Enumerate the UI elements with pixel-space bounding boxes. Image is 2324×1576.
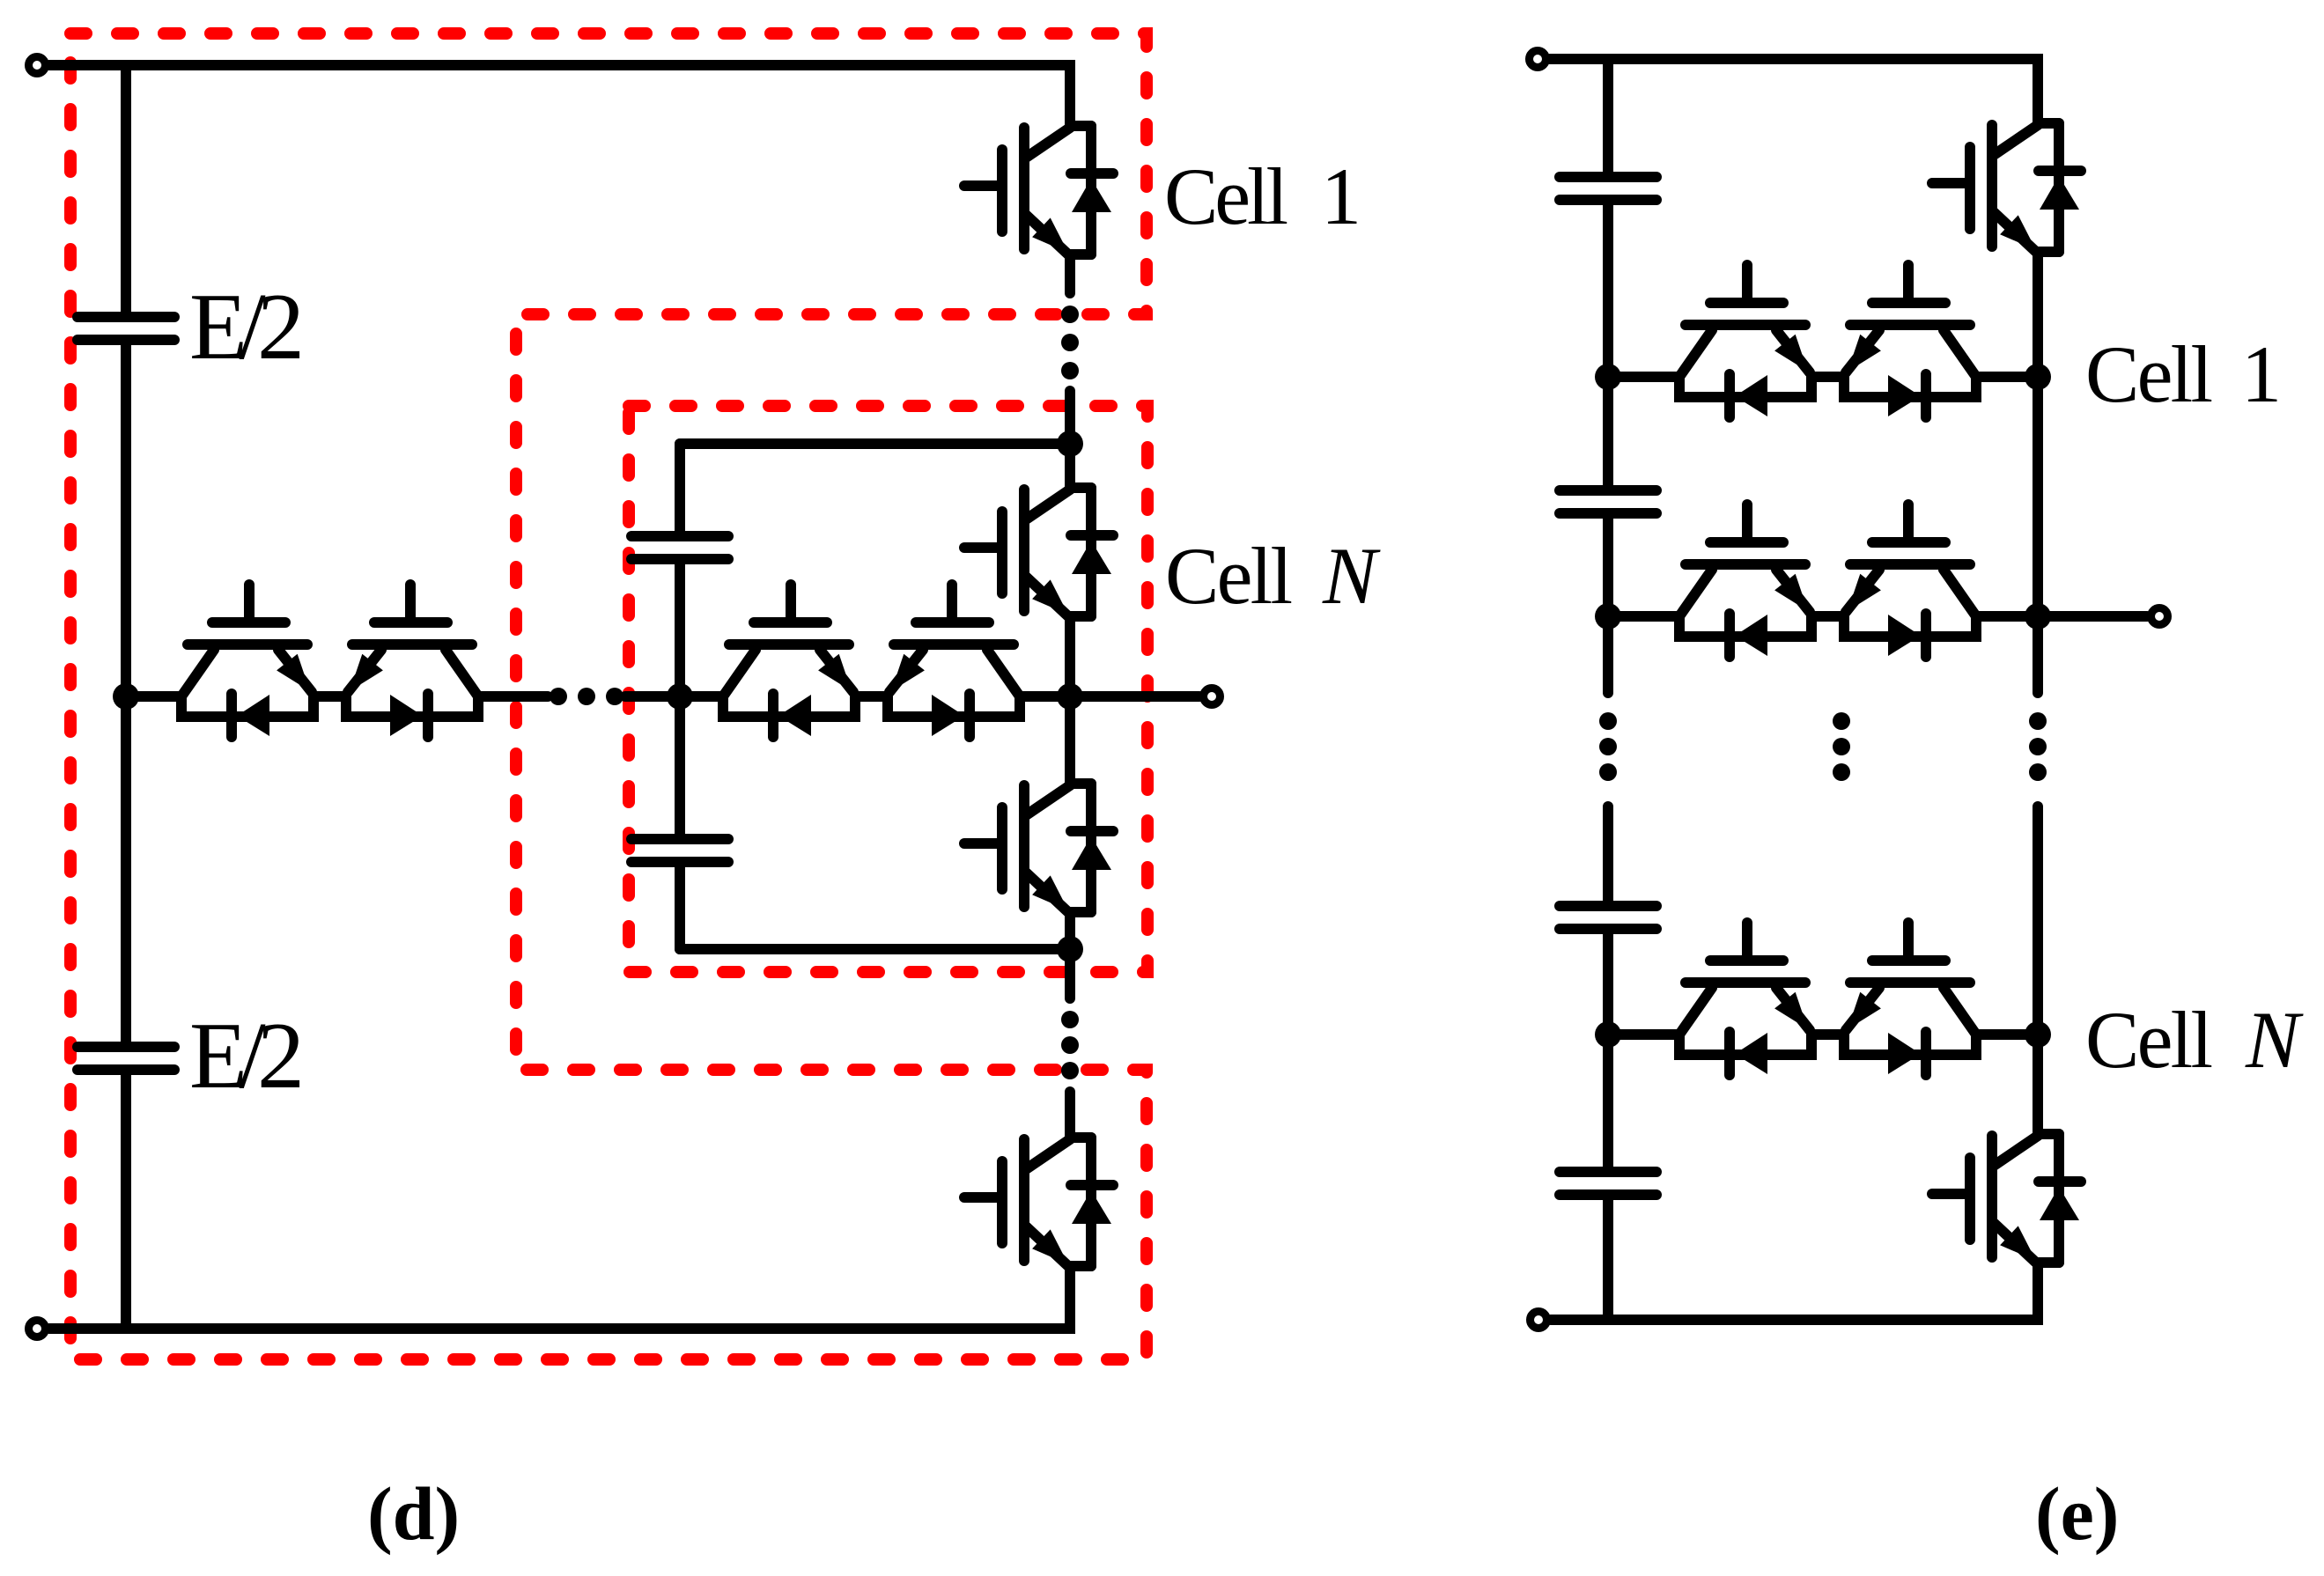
capacitor C1 E/2: [77, 317, 174, 340]
svg-text:Cell: Cell: [2085, 329, 2213, 419]
wire chain below dots to IGBT4: [1065, 1092, 1075, 1138]
wire flying-cap left branch middle: [675, 559, 685, 839]
terminal AC output (d): [1204, 689, 1221, 705]
svg-text:1: 1: [1321, 151, 1361, 241]
node dot row2 left: [1595, 603, 1621, 630]
capacitor C3 flying: [631, 536, 728, 559]
wire top rail (d): [49, 65, 1070, 126]
wire chain IGBT3 to lower dots: [1065, 912, 1075, 998]
wire chain IGBT1 to dots: [1065, 254, 1075, 293]
wire row2 rail right: [1976, 611, 2038, 622]
node dot row1 right: [2025, 364, 2051, 390]
transistor Q4 bottom IGBT of cell 1: [964, 1138, 1113, 1266]
wire bottom rail (e): [1551, 1263, 2038, 1320]
svg-text:1: 1: [2241, 329, 2282, 419]
wire left branch (e) segment 5: [1603, 929, 1613, 1172]
wire row1 rail right: [1976, 372, 2038, 382]
wire mid rail left segment: [126, 691, 181, 702]
wire row3 rail right: [1976, 1029, 2038, 1040]
capacitor C4 flying: [631, 839, 728, 862]
terminal AC output (e): [2151, 608, 2168, 625]
wire flying-cap top link: [680, 438, 1070, 449]
node dot flying-cap rail junction: [667, 683, 693, 710]
svg-text:E/2: E/2: [189, 1004, 305, 1108]
node dot row2 right: [2025, 603, 2051, 630]
capacitor C5 (e): [1560, 177, 1656, 200]
dotted continuation left column (e): [1599, 712, 1617, 781]
wire left branch (e) segment 2: [1603, 200, 1613, 490]
dotted continuation right column (e): [2029, 712, 2047, 781]
wire chain dots to node A: [1065, 391, 1075, 488]
wire row2 rail left: [1608, 611, 1679, 622]
dotted continuation middle column (e): [1833, 712, 1850, 781]
transistor pair row1 bidirectional switch (e): [1679, 265, 1976, 417]
terminal DC+ (d): [29, 57, 46, 74]
wire flying-cap left branch lower: [675, 862, 685, 949]
svg-text:Cell: Cell: [1164, 151, 1288, 241]
wire top rail (e): [1550, 59, 2038, 123]
wire chain row1 to row2: [2033, 377, 2043, 693]
wire chain top IGBT to row1: [2033, 252, 2043, 377]
capacitor C8 (e): [1560, 1172, 1656, 1195]
node dot row1 left: [1595, 364, 1621, 390]
red dashed boundary Cell N (inner box): [629, 406, 1147, 972]
wire left branch (e) segment 4: [1603, 806, 1613, 906]
dotted continuation mid rail: [550, 688, 623, 705]
svg-text:Cell: Cell: [1165, 531, 1293, 621]
wire row3 rail left: [1608, 1029, 1679, 1040]
terminal DC+ (e): [1530, 51, 1546, 68]
node dot chain bottom of cell N: [1057, 936, 1083, 962]
transistor pair row3 bidirectional switch (e): [1679, 923, 1976, 1075]
wire row2 output to terminal: [2038, 611, 2147, 622]
terminal DC- (d): [29, 1321, 46, 1337]
wire bottom rail (d): [49, 1266, 1070, 1329]
wire left DC-link branch (d): [121, 65, 131, 317]
node dot row3 left: [1595, 1021, 1621, 1048]
wire chain IGBT2 to IGBT3: [1065, 616, 1075, 784]
wire flying-cap bottom link: [680, 944, 1070, 954]
svg-text:(e): (e): [2035, 1471, 2119, 1556]
wire row1 rail left: [1608, 372, 1679, 382]
wire chain dots to row3: [2033, 806, 2043, 1134]
node dot left rail junction: [113, 683, 139, 710]
dotted continuation chain lower: [1061, 1011, 1079, 1079]
capacitor C2 E/2: [77, 1047, 174, 1070]
svg-text:(d): (d): [367, 1471, 460, 1556]
transistor pair row2 bidirectional switch (e): [1679, 504, 1976, 657]
node dot chain mid rail: [1057, 683, 1083, 710]
transistor Q6 bottom IGBT (e): [1932, 1134, 2081, 1263]
wire mid rail after pair 1: [478, 691, 548, 702]
svg-text:E/2: E/2: [189, 275, 305, 379]
transistor Q2 upper IGBT of cell N: [964, 488, 1113, 616]
wire flying-cap left branch upper: [675, 444, 685, 536]
node dot chain top of cell N: [1057, 431, 1083, 457]
wire left branch (e) segment 1: [1603, 59, 1613, 177]
transistor pair S1/S2 bidirectional switch: [181, 585, 478, 737]
dotted continuation chain upper: [1061, 306, 1079, 379]
svg-text:Cell: Cell: [2085, 995, 2213, 1085]
wire left branch (e) segment 3: [1603, 513, 1613, 693]
red dashed boundary Cell 1 (outer C-shaped box): [70, 33, 1147, 1359]
svg-text:N: N: [1322, 531, 1381, 621]
terminal DC- (e): [1531, 1312, 1547, 1329]
wire left branch (e) segment 6: [1603, 1195, 1613, 1320]
transistor pair S3/S4 bidirectional switch of cell N: [723, 585, 1020, 737]
transistor Q5 top IGBT (e): [1932, 123, 2081, 252]
capacitor C7 (e): [1560, 906, 1656, 929]
transistor Q1 top IGBT of cell 1: [964, 126, 1113, 254]
transistor Q3 lower IGBT of cell N: [964, 784, 1113, 912]
wire mid rail to output terminal: [1020, 691, 1199, 702]
svg-text:N: N: [2245, 995, 2304, 1085]
node dot row3 right: [2025, 1021, 2051, 1048]
wire mid rail before pair 2: [625, 691, 723, 702]
capacitor C6 (e): [1560, 490, 1656, 513]
